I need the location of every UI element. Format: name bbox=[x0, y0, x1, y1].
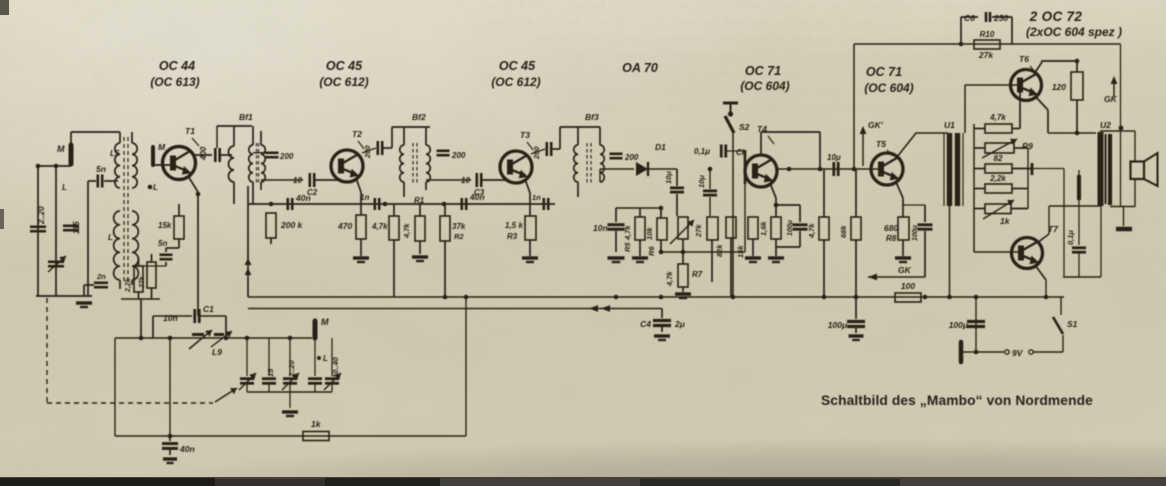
svg-text:2μ: 2μ bbox=[674, 319, 686, 329]
svg-text:L9: L9 bbox=[212, 347, 222, 357]
svg-text:(2xOC 604 spez ): (2xOC 604 spez ) bbox=[1026, 25, 1122, 39]
svg-text:L: L bbox=[323, 354, 328, 363]
svg-text:27k: 27k bbox=[978, 50, 994, 60]
svg-text:D1: D1 bbox=[655, 142, 666, 152]
svg-text:2,2k: 2,2k bbox=[125, 277, 132, 293]
svg-text:27k: 27k bbox=[139, 275, 146, 289]
svg-text:100μ: 100μ bbox=[828, 320, 848, 330]
svg-text:Bf3: Bf3 bbox=[585, 112, 599, 122]
svg-text:470: 470 bbox=[337, 221, 352, 231]
svg-text:15k: 15k bbox=[158, 221, 172, 230]
svg-text:C4: C4 bbox=[640, 319, 651, 329]
svg-text:aus um am von auch zu des auf: aus um am von auch zu des auf um das zu … bbox=[478, 0, 996, 10]
svg-text:T2: T2 bbox=[352, 129, 362, 139]
svg-text:15: 15 bbox=[266, 368, 275, 377]
svg-text:eine auf zu als am und zu im n: eine auf zu als am und zu im nach dem au… bbox=[553, 102, 1098, 112]
svg-text:2 OC 72: 2 OC 72 bbox=[1029, 9, 1083, 24]
svg-text:200: 200 bbox=[532, 146, 541, 160]
svg-text:Bf2: Bf2 bbox=[412, 112, 426, 122]
svg-text:120: 120 bbox=[1052, 82, 1066, 92]
svg-text:1k: 1k bbox=[311, 419, 322, 429]
svg-text:OA 70: OA 70 bbox=[622, 61, 658, 75]
svg-text:37k: 37k bbox=[452, 222, 466, 231]
svg-text:27k: 27k bbox=[694, 224, 703, 238]
svg-text:1k: 1k bbox=[1000, 216, 1011, 226]
svg-text:0,1μ: 0,1μ bbox=[694, 147, 710, 156]
svg-text:T1: T1 bbox=[185, 126, 195, 136]
svg-text:Bf1: Bf1 bbox=[239, 112, 253, 122]
svg-text:(OC 612): (OC 612) bbox=[319, 75, 368, 89]
svg-text:10k: 10k bbox=[645, 227, 654, 240]
svg-text:OC 71: OC 71 bbox=[745, 64, 781, 78]
svg-text:R1: R1 bbox=[414, 196, 425, 205]
svg-text:5n: 5n bbox=[96, 164, 106, 174]
svg-text:OC 45: OC 45 bbox=[499, 59, 536, 73]
svg-text:L: L bbox=[108, 233, 113, 242]
svg-text:250: 250 bbox=[993, 13, 1008, 23]
svg-text:T6: T6 bbox=[1019, 54, 1029, 64]
svg-text:von aus auf von im eine vor de: von aus auf von im eine vor der als das … bbox=[487, 17, 1033, 27]
svg-text:200: 200 bbox=[624, 153, 639, 162]
svg-text:10μ: 10μ bbox=[827, 153, 841, 162]
svg-text:1,5 k: 1,5 k bbox=[505, 221, 523, 230]
svg-text:10n: 10n bbox=[163, 313, 178, 323]
svg-text:200: 200 bbox=[279, 152, 294, 161]
svg-text:9V: 9V bbox=[1012, 348, 1024, 358]
svg-text:L: L bbox=[153, 183, 158, 192]
svg-text:100μ: 100μ bbox=[912, 224, 919, 241]
svg-text:400: 400 bbox=[199, 146, 208, 161]
svg-text:(OC 604): (OC 604) bbox=[864, 81, 913, 95]
svg-text:U2: U2 bbox=[1100, 120, 1111, 130]
svg-text:C6: C6 bbox=[964, 13, 975, 23]
svg-text:10μ: 10μ bbox=[697, 175, 706, 188]
svg-text:(OC 604): (OC 604) bbox=[740, 79, 789, 93]
svg-text:S1: S1 bbox=[1067, 319, 1078, 329]
svg-text:4,7k: 4,7k bbox=[989, 113, 1006, 122]
svg-text:R3: R3 bbox=[507, 232, 518, 241]
svg-text:10n: 10n bbox=[593, 223, 608, 233]
svg-text:R8: R8 bbox=[886, 234, 897, 243]
svg-text:S2: S2 bbox=[739, 122, 750, 132]
svg-text:82: 82 bbox=[994, 154, 1003, 163]
svg-text:OC 71: OC 71 bbox=[866, 65, 902, 79]
svg-text:GK: GK bbox=[898, 265, 912, 275]
svg-text:M: M bbox=[158, 142, 166, 152]
svg-text:T3: T3 bbox=[520, 130, 530, 140]
svg-text:2..20: 2..20 bbox=[37, 206, 46, 225]
svg-text:4,7k: 4,7k bbox=[402, 223, 411, 239]
svg-text:40n: 40n bbox=[179, 444, 195, 454]
svg-text:10μ: 10μ bbox=[664, 171, 673, 184]
svg-text:U1: U1 bbox=[944, 120, 955, 130]
svg-text:L: L bbox=[62, 183, 67, 192]
svg-text:10: 10 bbox=[293, 176, 302, 185]
svg-text:115: 115 bbox=[72, 221, 81, 234]
svg-text:R6: R6 bbox=[647, 246, 656, 256]
svg-text:OC 45: OC 45 bbox=[326, 59, 363, 73]
svg-text:L5: L5 bbox=[110, 149, 120, 158]
svg-text:M: M bbox=[321, 317, 329, 327]
svg-text:1,6k: 1,6k bbox=[759, 221, 768, 236]
svg-text:C2: C2 bbox=[307, 188, 318, 197]
svg-text:T5: T5 bbox=[876, 139, 886, 149]
svg-text:Schaltbild des „Mambo“ von: Schaltbild des „Mambo“ von Nordmende bbox=[821, 393, 1093, 408]
svg-text:4,7k: 4,7k bbox=[371, 222, 388, 231]
svg-text:2,2k: 2,2k bbox=[989, 174, 1006, 183]
svg-text:(OC 613): (OC 613) bbox=[150, 75, 199, 89]
svg-text:OC 44: OC 44 bbox=[159, 59, 195, 73]
svg-text:100μ: 100μ bbox=[949, 320, 969, 330]
svg-text:10: 10 bbox=[461, 176, 470, 185]
svg-text:100: 100 bbox=[901, 281, 915, 291]
svg-text:200 k: 200 k bbox=[280, 220, 304, 230]
svg-text:4,7k: 4,7k bbox=[807, 223, 816, 239]
svg-text:2n: 2n bbox=[96, 272, 106, 281]
svg-text:R5: R5 bbox=[623, 242, 632, 252]
svg-text:M: M bbox=[57, 144, 65, 154]
svg-text:C1: C1 bbox=[203, 304, 214, 314]
svg-text:R2: R2 bbox=[454, 232, 464, 241]
svg-text:(OC 612): (OC 612) bbox=[491, 75, 540, 89]
svg-text:R7: R7 bbox=[692, 270, 703, 279]
svg-text:4,7k: 4,7k bbox=[665, 271, 674, 287]
svg-text:200: 200 bbox=[451, 151, 466, 160]
svg-text:680: 680 bbox=[884, 223, 898, 233]
svg-text:5n: 5n bbox=[158, 239, 167, 248]
svg-text:GK: GK bbox=[1104, 94, 1118, 104]
svg-text:R10: R10 bbox=[980, 30, 995, 39]
svg-text:GK': GK' bbox=[868, 120, 884, 130]
svg-text:68k: 68k bbox=[839, 225, 848, 238]
svg-text:4,7k: 4,7k bbox=[623, 225, 632, 241]
svg-text:100μ: 100μ bbox=[787, 219, 794, 236]
svg-text:C3: C3 bbox=[474, 188, 485, 197]
svg-text:0,1μ: 0,1μ bbox=[1066, 230, 1075, 245]
svg-text:1n: 1n bbox=[532, 193, 541, 202]
svg-text:82k: 82k bbox=[715, 244, 724, 257]
svg-text:200: 200 bbox=[363, 145, 372, 159]
